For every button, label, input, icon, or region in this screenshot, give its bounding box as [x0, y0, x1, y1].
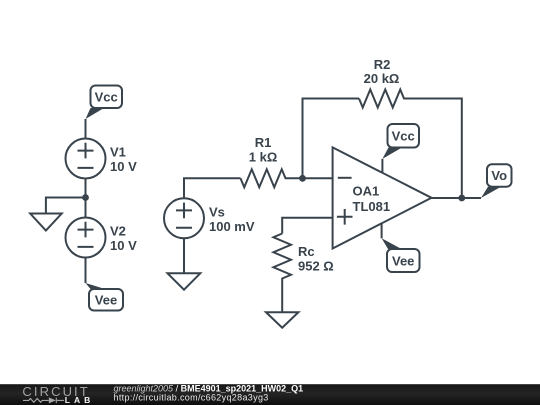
- svg-text:R1: R1: [255, 135, 272, 150]
- svg-text:Vcc: Vcc: [95, 90, 118, 105]
- svg-text:952 Ω: 952 Ω: [298, 259, 334, 274]
- svg-text:LAB: LAB: [65, 395, 94, 405]
- svg-text:R2: R2: [374, 57, 391, 72]
- svg-text:20 kΩ: 20 kΩ: [364, 71, 400, 86]
- svg-text:1 kΩ: 1 kΩ: [249, 150, 278, 165]
- svg-text:Vcc: Vcc: [392, 129, 415, 144]
- svg-text:V2: V2: [110, 223, 126, 238]
- svg-text:Vs: Vs: [209, 204, 225, 219]
- svg-text:Vee: Vee: [392, 254, 414, 269]
- svg-text:Vo: Vo: [491, 168, 507, 183]
- svg-text:10 V: 10 V: [110, 238, 137, 253]
- svg-text:10 V: 10 V: [110, 159, 137, 174]
- svg-text:100 mV: 100 mV: [209, 219, 255, 234]
- svg-text:Vee: Vee: [95, 293, 117, 308]
- svg-text:V1: V1: [110, 144, 126, 159]
- svg-text:OA1: OA1: [353, 184, 380, 199]
- svg-text:Rc: Rc: [298, 244, 315, 259]
- svg-text:http://circuitlab.com/c662yq28: http://circuitlab.com/c662yq28a3yg3: [114, 392, 269, 402]
- svg-text:TL081: TL081: [353, 199, 391, 214]
